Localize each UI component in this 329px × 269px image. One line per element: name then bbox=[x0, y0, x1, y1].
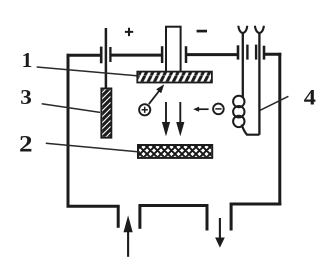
leader line label 2 bbox=[46, 143, 140, 152]
svg-text:1: 1 bbox=[22, 48, 33, 72]
heater feedthrough inner bar right bbox=[255, 45, 257, 60]
deposition flux arrow right bbox=[176, 102, 184, 136]
chamber bottom wall left segment bbox=[67, 205, 120, 208]
heater coil bottom connecting wire bbox=[242, 125, 260, 135]
leader line label 3 bbox=[42, 104, 100, 113]
substrate 2 (cross-hatched plate) bbox=[138, 145, 212, 158]
heater terminal fork right bbox=[255, 26, 264, 33]
chamber right wall bbox=[278, 53, 281, 206]
insulator plate right of cathode stem bbox=[185, 46, 188, 63]
heater feedthrough inner bar left bbox=[246, 45, 248, 60]
electron symbol bbox=[213, 104, 224, 115]
svg-text:3: 3 bbox=[20, 85, 32, 109]
deposition flux arrow left bbox=[162, 102, 170, 136]
svg-text:4: 4 bbox=[304, 85, 316, 110]
plus polarity label bbox=[125, 28, 133, 36]
heater feedthrough wall plate left bbox=[237, 45, 240, 59]
positive ion symbol bbox=[139, 104, 150, 115]
minus polarity label bbox=[197, 30, 207, 33]
inlet port stub right bbox=[138, 205, 141, 229]
leader line label 1 bbox=[37, 67, 137, 76]
insulator plate left of cathode stem bbox=[161, 46, 164, 63]
heater coil U4 loop 3 bbox=[233, 116, 244, 127]
chamber left wall bbox=[67, 54, 70, 208]
gas outlet arrow bbox=[215, 218, 225, 248]
cathode stem rectangle bbox=[166, 27, 181, 74]
heater lead-in wire right bbox=[258, 33, 260, 135]
electron motion arrow bbox=[193, 107, 208, 112]
chamber bottom wall middle segment bbox=[139, 204, 209, 207]
electrode 3 (side plate, hatched) bbox=[101, 88, 111, 137]
battery short bar (right of conductor) bbox=[109, 47, 111, 62]
chamber top wall segment B bbox=[111, 54, 162, 57]
chamber top wall segment D bbox=[264, 53, 281, 56]
heater feedthrough wall plate right bbox=[263, 46, 266, 60]
outlet port stub left bbox=[206, 205, 209, 231]
chamber top wall segment A bbox=[67, 54, 102, 57]
ion trajectory arrow toward cathode bbox=[149, 84, 164, 104]
chamber top wall segment C bbox=[187, 53, 239, 56]
battery plate (wall end, left feedthrough) bbox=[100, 47, 103, 64]
chamber bottom wall right segment bbox=[230, 203, 282, 206]
gas inlet arrow bbox=[124, 215, 133, 256]
outlet port stub right bbox=[230, 203, 233, 231]
leader line label 4 bbox=[260, 96, 288, 110]
svg-text:2: 2 bbox=[19, 132, 33, 157]
heater coil U4 loop 1 bbox=[233, 96, 244, 107]
heater lead-in wire left bbox=[242, 33, 244, 98]
heater terminal fork left bbox=[238, 26, 247, 33]
inlet port stub left bbox=[117, 205, 120, 228]
electrode 1 (cathode target plate, hatched) bbox=[137, 72, 212, 83]
battery long electrode / conductor to electrode 3 bbox=[105, 28, 108, 90]
heater coil U4 loop 2 bbox=[233, 106, 244, 117]
